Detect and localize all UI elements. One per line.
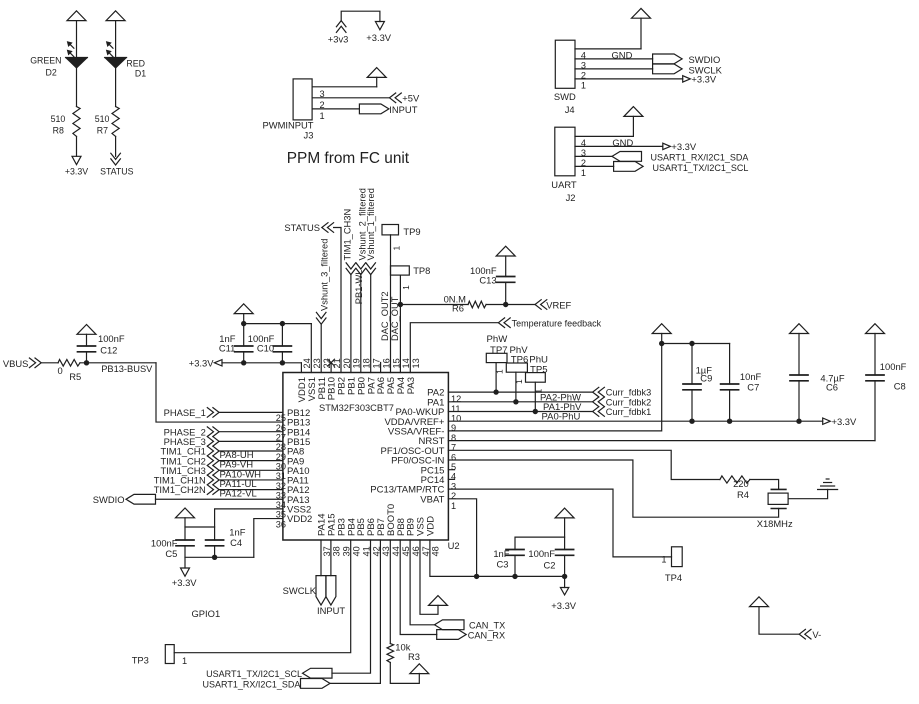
flag INPUT (J3 pin1) bbox=[359, 104, 417, 115]
LED D2 bbox=[66, 58, 88, 68]
wire bbox=[76, 21, 78, 58]
svg-text:C8: C8 bbox=[894, 381, 906, 392]
wire VSSA pin8 to top rail bbox=[448, 344, 661, 431]
svg-text:TP9: TP9 bbox=[403, 226, 420, 237]
label STM32F303CBT7 bbox=[319, 403, 394, 413]
J4 pin 3 wire bbox=[575, 59, 653, 70]
svg-text:C6: C6 bbox=[826, 382, 838, 393]
svg-text:Temperature feedback: Temperature feedback bbox=[512, 319, 602, 329]
testpoint TP3 bbox=[132, 645, 187, 666]
svg-text:2: 2 bbox=[451, 491, 456, 501]
wire VSS pin47 to power flag bbox=[420, 540, 438, 614]
label 100nF C5 bbox=[151, 537, 178, 559]
svg-text:100nF: 100nF bbox=[880, 361, 907, 372]
wire bbox=[759, 607, 799, 635]
power flag +3.3V anode of D1 bbox=[106, 11, 125, 21]
label 100nF C12 bbox=[98, 333, 125, 356]
capacitor C12 100nF bbox=[78, 334, 96, 363]
svg-text:5: 5 bbox=[451, 462, 456, 472]
svg-text:INPUT: INPUT bbox=[317, 605, 345, 616]
net flag STATUS below R7 bbox=[100, 153, 134, 176]
resistor R3 10k bbox=[387, 644, 394, 663]
svg-text:1: 1 bbox=[581, 80, 586, 90]
svg-text:TIM1_CH3N: TIM1_CH3N bbox=[343, 209, 353, 261]
svg-text:PF1/OSC-OUT: PF1/OSC-OUT bbox=[381, 446, 445, 457]
svg-text:PC13/TAMP/RTC: PC13/TAMP/RTC bbox=[370, 485, 444, 496]
svg-text:INPUT: INPUT bbox=[389, 104, 417, 115]
net +3.3V (VDDA rail) bbox=[823, 416, 857, 427]
svg-text:1nF: 1nF bbox=[229, 527, 245, 538]
svg-text:PA1: PA1 bbox=[427, 397, 444, 408]
junction bbox=[398, 302, 403, 307]
svg-text:PB1-WL: PB1-WL bbox=[354, 270, 364, 305]
net flag PHASE_2 (pin 27) bbox=[164, 426, 220, 437]
wire PA1 row bbox=[448, 399, 592, 404]
svg-text:PA4: PA4 bbox=[396, 377, 407, 394]
wire PA15 pin38 to INPUT flag bbox=[330, 540, 332, 576]
svg-text:PhW: PhW bbox=[487, 334, 509, 345]
svg-text:VDD1: VDD1 bbox=[297, 377, 308, 402]
label 0N.M R6 bbox=[444, 293, 467, 313]
svg-text:PA0-WKUP: PA0-WKUP bbox=[395, 407, 444, 418]
net flag VBUS bbox=[3, 358, 41, 369]
svg-text:8: 8 bbox=[451, 433, 456, 443]
no-connect cross PB10 pin21 bbox=[328, 359, 335, 372]
capacitor C3 1nF bbox=[506, 550, 524, 577]
wire bbox=[42, 362, 58, 364]
svg-text:J2: J2 bbox=[566, 192, 576, 203]
svg-text:Curr_fdbk1: Curr_fdbk1 bbox=[606, 407, 651, 417]
svg-text:+3.3V: +3.3V bbox=[671, 141, 697, 152]
wire PB9 pin46 to CAN_TX flag bbox=[410, 540, 435, 625]
wire bbox=[220, 469, 283, 471]
svg-text:STM32F303CBT7: STM32F303CBT7 bbox=[319, 403, 394, 413]
wire bbox=[220, 431, 283, 433]
wire VBUS to PB13 corner bbox=[80, 362, 156, 364]
wire crystal case to ground bbox=[788, 490, 828, 499]
svg-text:J4: J4 bbox=[565, 104, 575, 115]
svg-text:48: 48 bbox=[431, 546, 441, 556]
power flag above C5 bbox=[176, 508, 195, 518]
net flag Curr_fdbk2 bbox=[593, 397, 652, 407]
resistor R4 220 bbox=[720, 476, 750, 483]
svg-text:J3: J3 bbox=[304, 130, 314, 141]
label DAC_OUT (PA5) bbox=[390, 296, 400, 341]
label PA1-PhV bbox=[543, 402, 582, 413]
svg-text:SWDIO: SWDIO bbox=[93, 494, 125, 505]
flag SWDIO (PA13) bbox=[93, 494, 156, 505]
label U2 bbox=[448, 540, 460, 551]
svg-text:GPIO1: GPIO1 bbox=[192, 608, 221, 619]
svg-text:C3: C3 bbox=[497, 558, 509, 569]
svg-text:24: 24 bbox=[302, 358, 312, 368]
svg-text:7: 7 bbox=[451, 443, 456, 453]
svg-text:R5: R5 bbox=[69, 371, 81, 382]
svg-text:C5: C5 bbox=[165, 548, 177, 559]
flag USART1_RX/I2C1_SDA bbox=[203, 679, 330, 690]
power flag (VSS pin47) bbox=[429, 596, 448, 606]
svg-text:20: 20 bbox=[342, 358, 352, 368]
capacitor C7 10nF bbox=[721, 344, 739, 422]
resistor R6 0 N.M bbox=[468, 301, 486, 308]
svg-text:PC15: PC15 bbox=[421, 465, 445, 476]
net flag V- bbox=[799, 629, 821, 640]
label 10k R3 bbox=[395, 642, 420, 663]
capacitor C8 100nF bbox=[866, 334, 884, 441]
stub PA6 pin16 bbox=[380, 363, 382, 373]
svg-text:VDD: VDD bbox=[426, 516, 437, 536]
svg-text:PA6: PA6 bbox=[376, 377, 387, 394]
label PB13-BUSV bbox=[101, 364, 153, 374]
power flag above C2 bbox=[555, 508, 574, 518]
svg-text:PB13-BUSV: PB13-BUSV bbox=[101, 364, 153, 374]
connector J2 UART bbox=[555, 127, 575, 176]
svg-text:VSS1: VSS1 bbox=[307, 377, 318, 401]
svg-text:6: 6 bbox=[451, 452, 456, 462]
capacitor C6 4.7uF bbox=[790, 334, 808, 422]
wire bbox=[185, 518, 215, 540]
label 100nF C13 bbox=[470, 265, 497, 286]
wire bbox=[220, 411, 283, 413]
svg-text:22: 22 bbox=[322, 358, 332, 368]
wire TP6 stem bbox=[515, 372, 517, 402]
svg-text:PB0: PB0 bbox=[356, 377, 367, 395]
capacitor C4 1nF bbox=[206, 540, 224, 557]
power flag above C8 bbox=[866, 324, 885, 334]
power flag above C11 bbox=[234, 304, 253, 314]
capacitor C5 100nF bbox=[176, 540, 194, 568]
label PA12-VL bbox=[220, 489, 257, 500]
svg-text:C13: C13 bbox=[479, 274, 496, 285]
testpoint TP4 bbox=[661, 547, 682, 583]
svg-text:10: 10 bbox=[451, 414, 461, 424]
capacitor C13 100nF bbox=[497, 256, 515, 305]
flag USART1_RX/I2C1_SDA bbox=[612, 152, 748, 163]
label PA8-UH bbox=[220, 450, 254, 461]
wire PC13 pin2 to TP4 bbox=[448, 489, 671, 557]
svg-text:4: 4 bbox=[451, 472, 456, 482]
label PhW bbox=[487, 334, 509, 345]
label 1nF C4 bbox=[229, 527, 245, 549]
svg-text:PHASE_1: PHASE_1 bbox=[164, 407, 206, 418]
svg-text:17: 17 bbox=[372, 358, 382, 368]
wire PF0 pin5 to crystal bottom bbox=[448, 460, 778, 517]
svg-text:220: 220 bbox=[733, 478, 749, 489]
label PA10-WH bbox=[220, 469, 262, 480]
svg-text:Vshunt_1_filtered: Vshunt_1_filtered bbox=[366, 188, 376, 260]
svg-text:+3v3: +3v3 bbox=[328, 33, 349, 44]
label 1nF C3 bbox=[493, 548, 509, 569]
wire +3.3V rail bbox=[222, 362, 301, 364]
wire VDD1 pin24 bbox=[300, 363, 302, 373]
svg-text:1: 1 bbox=[661, 555, 666, 565]
svg-text:510: 510 bbox=[51, 114, 66, 124]
label 100nF C2 bbox=[528, 548, 555, 571]
wire PA3 to flag bbox=[410, 323, 498, 373]
svg-text:25: 25 bbox=[276, 413, 286, 423]
wire bbox=[486, 304, 534, 306]
wire bbox=[370, 275, 372, 373]
wire VBAT pin1 to +3.3V rail bbox=[448, 499, 476, 577]
svg-text:VDDA/VREF+: VDDA/VREF+ bbox=[384, 417, 444, 428]
label DAC_OUT2 (PA6 stub) bbox=[380, 291, 390, 341]
svg-text:C9: C9 bbox=[700, 373, 712, 384]
svg-text:PA3: PA3 bbox=[406, 377, 417, 394]
svg-text:+3.3V: +3.3V bbox=[172, 577, 198, 588]
flag USART1_TX/I2C1_SCL bbox=[614, 162, 749, 173]
wire BOOT0 pin44 to R3 bbox=[389, 540, 391, 644]
wire R3 to power flag bbox=[390, 663, 419, 684]
svg-text:11: 11 bbox=[451, 404, 461, 414]
flag SWDIO output bbox=[653, 54, 721, 65]
svg-text:X18MHz: X18MHz bbox=[757, 518, 793, 529]
net flag Temperature feedback bbox=[498, 318, 601, 329]
power flag below R3 bbox=[410, 664, 429, 674]
svg-text:23: 23 bbox=[312, 358, 322, 368]
net flag PHASE_1 (pin 25) bbox=[164, 407, 220, 418]
svg-text:R6: R6 bbox=[452, 303, 464, 314]
svg-text:PPM from FC unit: PPM from FC unit bbox=[287, 150, 410, 167]
net flag Curr_fdbk3 bbox=[593, 387, 652, 397]
resistor R5 0 bbox=[58, 360, 80, 367]
wire bbox=[320, 324, 322, 372]
flag SWCLK (PA14) bbox=[283, 576, 326, 606]
J4 pin 1 wire to +3.3V bbox=[575, 79, 683, 90]
wire net-tie bbox=[341, 11, 380, 21]
net flag TIM1_CH2N (pin 33) bbox=[154, 484, 219, 495]
wire VDD pin48 to +3.3V rail bbox=[430, 540, 565, 576]
svg-text:C12: C12 bbox=[100, 345, 117, 356]
J4 pin 4 wire GND bbox=[575, 18, 641, 60]
svg-text:+3.3V: +3.3V bbox=[65, 167, 88, 177]
svg-text:PB2: PB2 bbox=[337, 377, 348, 395]
LED D1 bbox=[105, 58, 127, 68]
svg-text:10nF: 10nF bbox=[740, 371, 762, 382]
svg-text:3: 3 bbox=[451, 481, 456, 491]
svg-text:C7: C7 bbox=[747, 382, 759, 393]
svg-text:0: 0 bbox=[58, 365, 63, 376]
net flag PHASE_3 (pin 28) bbox=[164, 436, 220, 447]
svg-text:PA2: PA2 bbox=[427, 388, 444, 399]
junction bbox=[659, 341, 695, 346]
power flag above C12 bbox=[77, 325, 96, 335]
testpoint TP9 (PA5) bbox=[382, 225, 421, 251]
svg-text:VDD2: VDD2 bbox=[287, 514, 312, 525]
MCU top pin numbers 13-24 bbox=[302, 358, 421, 368]
svg-text:15: 15 bbox=[391, 358, 401, 368]
svg-text:TP7: TP7 bbox=[490, 345, 508, 356]
svg-text:Curr_fdbk3: Curr_fdbk3 bbox=[606, 388, 651, 398]
junction bbox=[84, 360, 89, 365]
svg-text:16: 16 bbox=[381, 358, 391, 368]
svg-text:Curr_fdbk2: Curr_fdbk2 bbox=[606, 397, 651, 407]
svg-text:1: 1 bbox=[401, 285, 411, 290]
svg-text:40: 40 bbox=[352, 546, 362, 556]
net flag TIM1_CH3 (pin 31) bbox=[160, 465, 219, 476]
wire bbox=[360, 275, 362, 373]
wire PB13-BUSV down to pin 26 bbox=[156, 363, 283, 422]
wire bbox=[244, 314, 312, 324]
wire bbox=[220, 479, 283, 481]
svg-text:38: 38 bbox=[332, 546, 342, 556]
net flag +3v3 bbox=[328, 21, 349, 45]
J2 pin 1 wire bbox=[575, 166, 614, 177]
wire TP5 stem bbox=[534, 382, 536, 411]
svg-text:C11: C11 bbox=[219, 342, 236, 353]
svg-text:USART1_RX/I2C1_SDA: USART1_RX/I2C1_SDA bbox=[651, 152, 749, 162]
capacitor C11 1nF bbox=[235, 324, 253, 363]
svg-text:GREEN: GREEN bbox=[30, 56, 61, 66]
J2 pin 4 wire GND bbox=[575, 116, 633, 148]
power flag GND (J4) bbox=[632, 8, 651, 18]
label 4.7uF C6 bbox=[820, 372, 844, 392]
svg-text:PB1: PB1 bbox=[347, 377, 358, 395]
label 100nF C10 bbox=[248, 333, 275, 354]
power flag above C6 bbox=[790, 324, 809, 334]
power flag above VSSA rail bbox=[652, 324, 671, 344]
wire bbox=[350, 275, 352, 373]
J3 pin 2 wire bbox=[312, 98, 389, 110]
label 0 R5 bbox=[58, 365, 82, 382]
net +3.3V left rail bbox=[189, 358, 222, 369]
junction bbox=[503, 302, 508, 307]
svg-text:USART1_TX/I2C1_SCL: USART1_TX/I2C1_SCL bbox=[206, 669, 302, 679]
junction bbox=[241, 321, 285, 366]
wire PA4 to R6 bbox=[400, 304, 468, 306]
flag USART1_TX/I2C1_SCL bbox=[206, 668, 332, 679]
net +3.3V arrow bbox=[366, 22, 392, 43]
wire TP7 stem bbox=[495, 363, 497, 393]
svg-text:100nF: 100nF bbox=[528, 548, 555, 559]
svg-text:VREF: VREF bbox=[546, 299, 571, 310]
svg-text:14: 14 bbox=[401, 358, 411, 368]
svg-text:DAC_OUT2: DAC_OUT2 bbox=[380, 291, 390, 341]
svg-text:PB11: PB11 bbox=[317, 377, 328, 400]
label PA2-PhW bbox=[540, 392, 581, 403]
svg-text:R7: R7 bbox=[97, 125, 108, 135]
wire bbox=[115, 68, 117, 107]
net flag VREF bbox=[535, 299, 571, 310]
testpoint TP6 (PhV on PA1) bbox=[506, 355, 528, 385]
label 1uF C9 bbox=[696, 364, 713, 383]
flag CAN_TX bbox=[435, 620, 506, 631]
svg-text:19: 19 bbox=[352, 358, 362, 368]
svg-text:12: 12 bbox=[451, 394, 461, 404]
net flag TIM1_CH1 (pin 29) bbox=[160, 446, 219, 457]
svg-text:SWCLK: SWCLK bbox=[283, 585, 317, 596]
svg-text:C4: C4 bbox=[230, 537, 242, 548]
svg-text:STATUS: STATUS bbox=[284, 222, 320, 233]
net flag Curr_fdbk1 bbox=[593, 407, 652, 417]
svg-text:VSSA/VREF-: VSSA/VREF- bbox=[388, 427, 445, 438]
svg-text:C2: C2 bbox=[544, 560, 556, 571]
capacitor C10 100nF bbox=[273, 324, 291, 363]
label GPIO1 bbox=[192, 608, 221, 619]
svg-text:TP3: TP3 bbox=[132, 655, 149, 666]
resistor R7 510 bbox=[112, 107, 119, 137]
junction bbox=[474, 574, 567, 579]
LED D2 emission arrows bbox=[68, 42, 74, 57]
power flag +3.3V anode of D2 bbox=[67, 11, 86, 21]
label PA9-VH bbox=[220, 460, 254, 471]
svg-text:1: 1 bbox=[320, 111, 325, 121]
wire bbox=[76, 136, 78, 156]
svg-text:C10: C10 bbox=[257, 342, 274, 353]
net flag Vshunt_1_filtered (PA7) bbox=[366, 188, 376, 274]
J2 pin 3 wire to +3.3V bbox=[575, 146, 663, 157]
net flag TIM1_CH2 (pin 30) bbox=[160, 455, 219, 466]
wire bbox=[156, 498, 283, 500]
svg-text:R4: R4 bbox=[737, 489, 749, 500]
LED D1 emission arrows bbox=[107, 42, 113, 57]
label RED D1 bbox=[126, 58, 146, 78]
net flag TIM1_CH3N (PB1) bbox=[343, 209, 356, 275]
flag SWCLK output bbox=[653, 64, 723, 76]
chassis ground bbox=[818, 479, 838, 490]
flag INPUT (PA15) bbox=[317, 576, 345, 616]
svg-text:+3.3V: +3.3V bbox=[366, 32, 392, 43]
label PA0-PhU bbox=[542, 412, 581, 423]
label PhV bbox=[510, 345, 529, 356]
wire bbox=[220, 440, 283, 442]
label 100nF C8 bbox=[880, 361, 907, 391]
svg-text:+3.3V: +3.3V bbox=[832, 416, 858, 427]
wire PF1 pin6 to R4 bbox=[448, 450, 720, 479]
svg-text:+3.3V: +3.3V bbox=[189, 358, 215, 369]
svg-text:CAN_TX: CAN_TX bbox=[469, 621, 505, 631]
resistor R8 510 bbox=[73, 107, 80, 137]
label PA11-UL bbox=[220, 479, 257, 490]
svg-text:SWDIO: SWDIO bbox=[689, 54, 721, 65]
net +3.3V below R8 bbox=[65, 156, 88, 176]
wire PB6 pin42 to USART1_TX flag bbox=[332, 540, 371, 673]
label 510 R8 bbox=[51, 114, 66, 136]
svg-text:18: 18 bbox=[362, 358, 372, 368]
J3 pin 1 wire bbox=[312, 109, 359, 121]
net flag TIM1_CH1N (pin 32) bbox=[154, 475, 219, 486]
label X18MHz bbox=[757, 518, 793, 529]
label PB1-WL bbox=[354, 270, 364, 305]
svg-text:PA7: PA7 bbox=[366, 377, 377, 394]
svg-text:TP4: TP4 bbox=[665, 572, 682, 583]
label PhU bbox=[529, 355, 548, 366]
svg-text:NRST: NRST bbox=[419, 436, 445, 447]
svg-text:1: 1 bbox=[581, 168, 586, 178]
label 10nF C7 bbox=[740, 371, 762, 393]
wire VDD2 pin36 bbox=[254, 519, 283, 558]
svg-text:9: 9 bbox=[451, 423, 456, 433]
flag CAN_RX bbox=[437, 630, 505, 641]
label 1nF C11 bbox=[219, 333, 236, 354]
svg-text:+3.3V: +3.3V bbox=[551, 600, 577, 611]
wire VDDA pin9 rail bbox=[448, 420, 822, 422]
label GREEN D2 bbox=[30, 56, 61, 78]
wire PB7 pin43 to USART1_RX flag bbox=[331, 540, 381, 683]
MCU top pin names bbox=[297, 377, 417, 402]
power flag +5V rail (J3 pin3) bbox=[367, 68, 386, 78]
svg-text:RED: RED bbox=[126, 58, 145, 68]
wire bbox=[220, 460, 283, 462]
svg-text:R8: R8 bbox=[53, 125, 64, 135]
wire VSS2 pin35 bbox=[215, 509, 283, 540]
wire PA0 row bbox=[448, 409, 592, 414]
svg-text:PC14: PC14 bbox=[421, 475, 445, 486]
power flag above C13 bbox=[496, 246, 515, 256]
wire bbox=[76, 68, 78, 107]
svg-text:V-: V- bbox=[812, 629, 821, 640]
label PWMINPUT J3 bbox=[263, 120, 314, 141]
stub PC15 pin4 bbox=[448, 469, 454, 471]
